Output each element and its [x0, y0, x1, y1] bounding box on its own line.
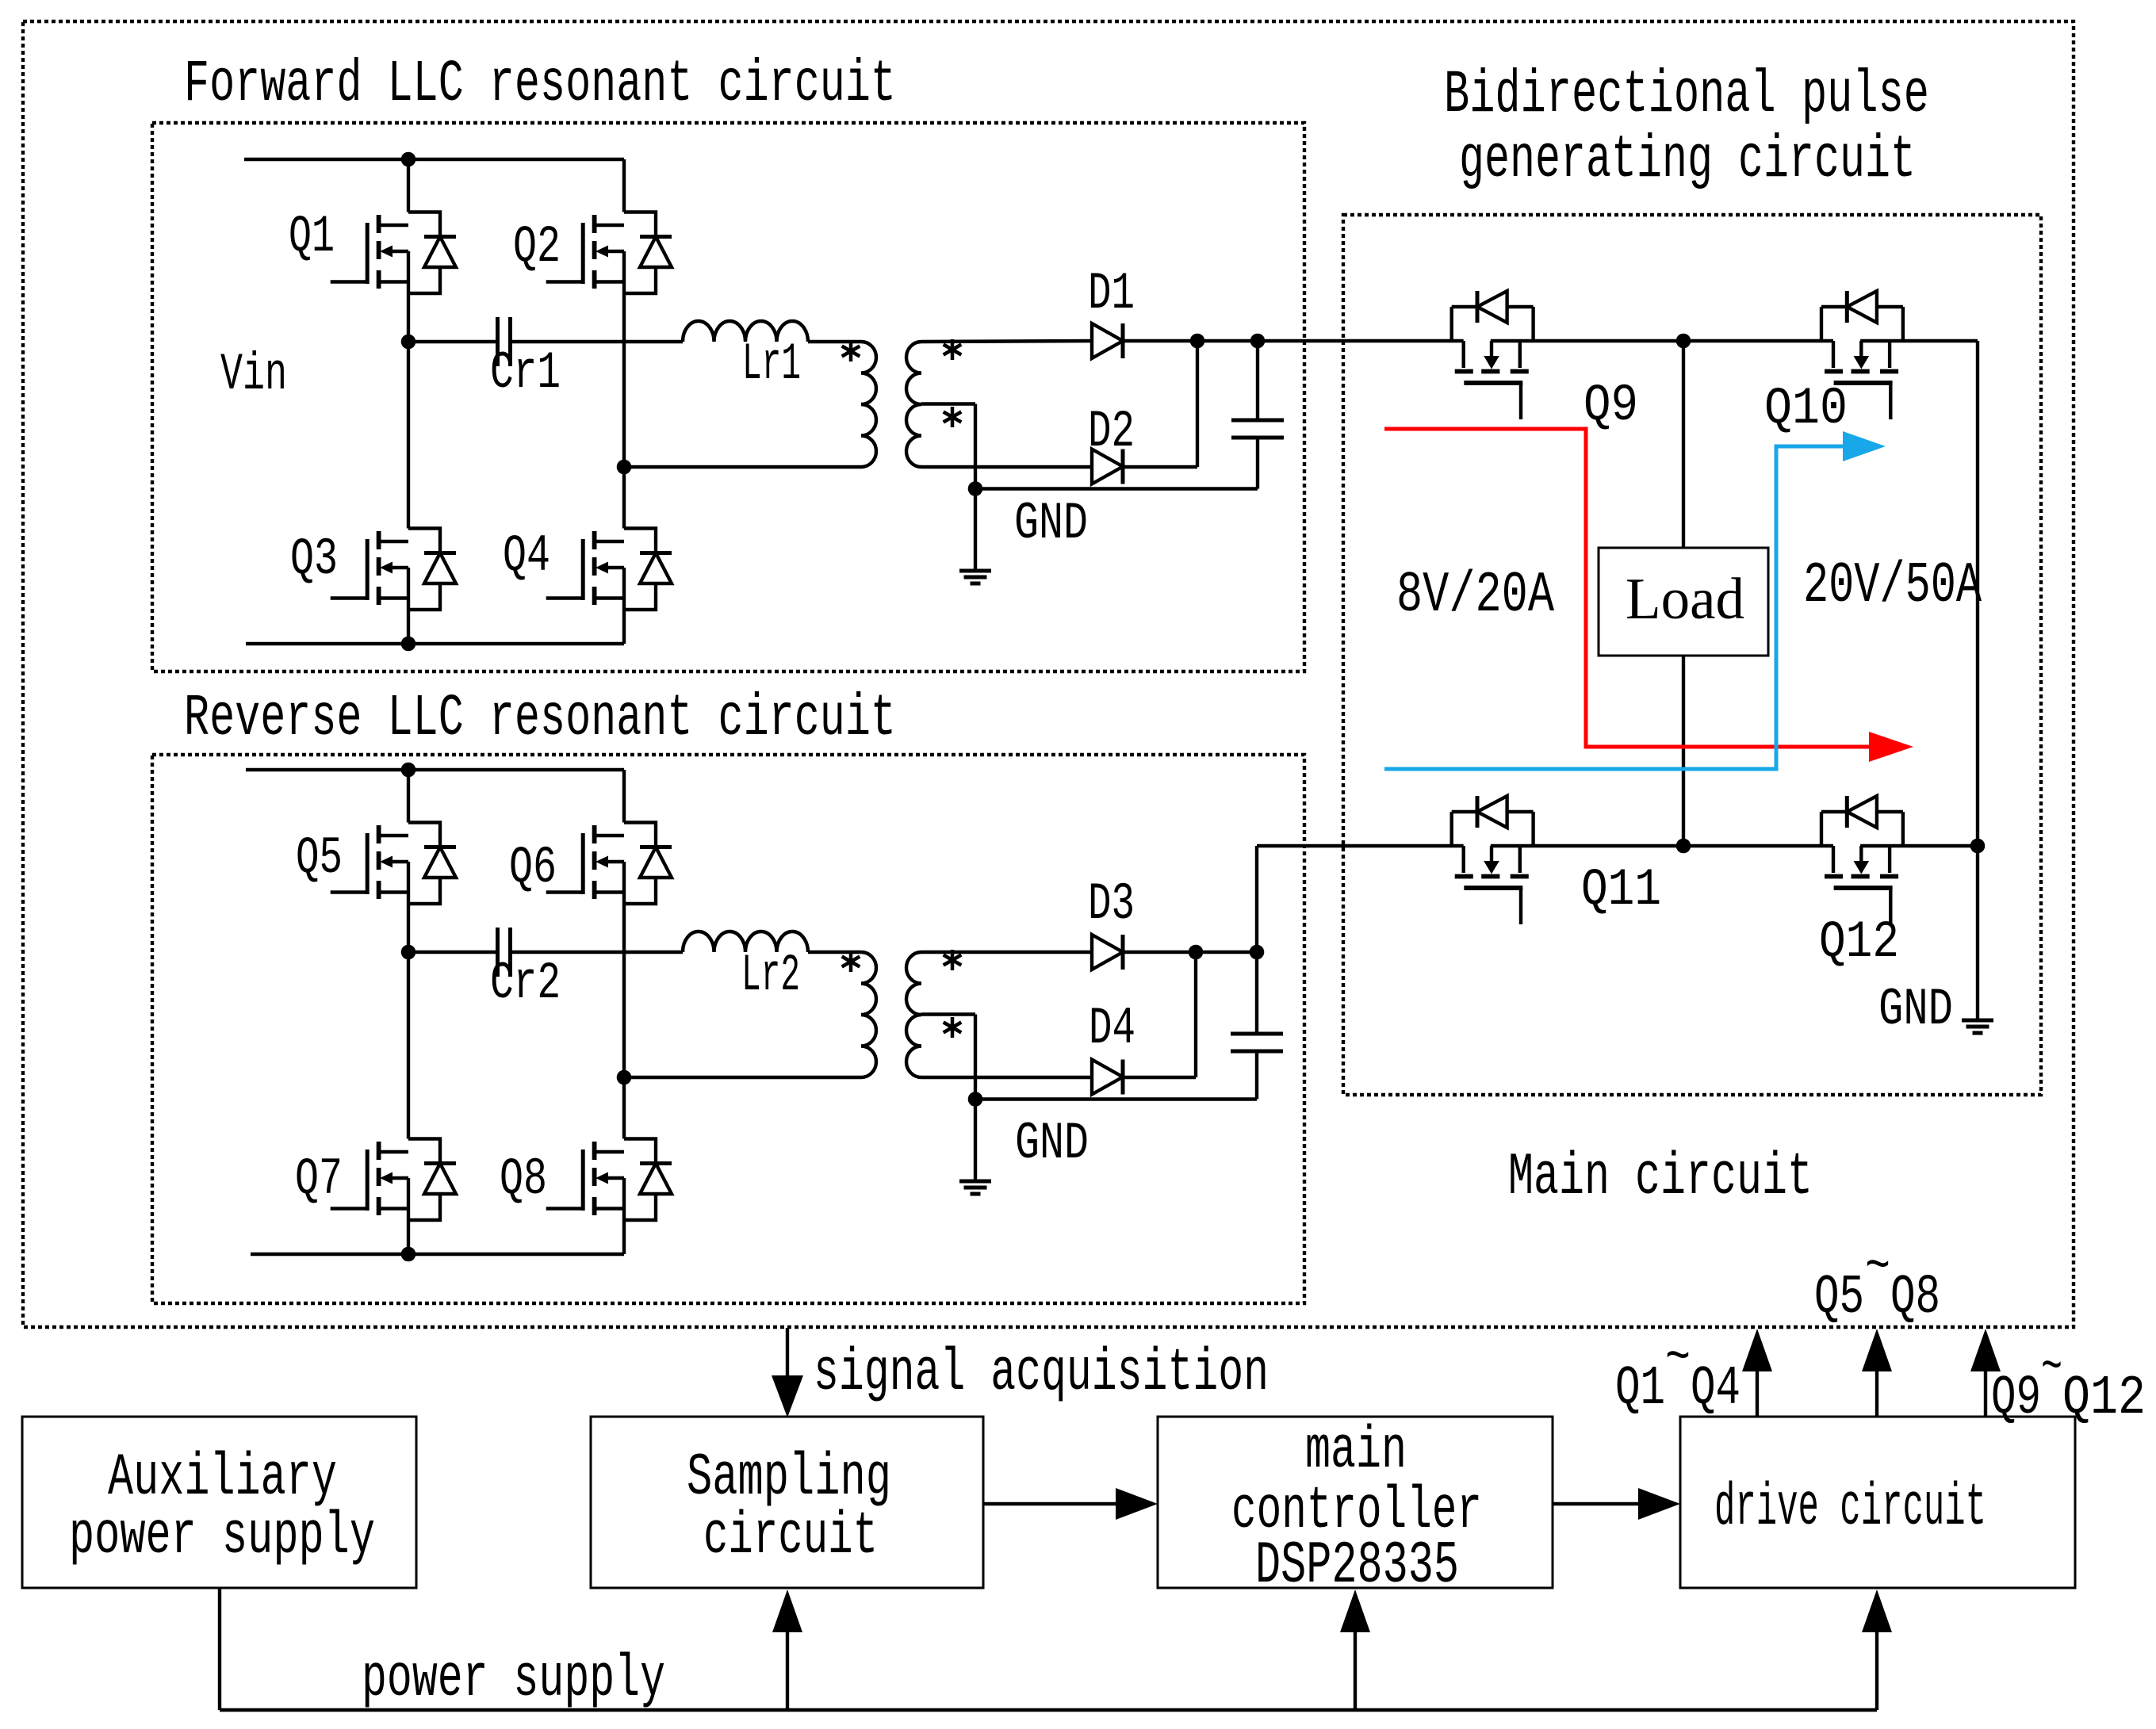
diode D2 [1092, 449, 1123, 484]
wire: D1 cathode to Q9 drain (forward output rail) [1123, 339, 1464, 342]
wire: leg1 drain to Q1 [407, 159, 410, 212]
wire: Q5 source to Q7 drain [407, 904, 410, 1139]
svg-text:20V/50A: 20V/50A [1803, 553, 1982, 618]
wire: Q2 source to Q4 drain [622, 293, 626, 529]
svg-text:Q9: Q9 [1991, 1368, 2041, 1430]
wire: D2 cathode riser to output rail [1123, 465, 1197, 469]
transformer T2 secondary winding [906, 952, 921, 1077]
arrow: Sampling to main controller [983, 1502, 1116, 1505]
node: reverse leg2 midpoint (primary return) [617, 1070, 632, 1085]
wire: Q8 source to bottom rail [622, 1220, 626, 1254]
wire: Cr2 to Lr2 [512, 951, 683, 954]
wire: Lr1 to transformer T1 primary [808, 340, 861, 343]
svg-text:~: ~ [1865, 1237, 1890, 1299]
wire: T1 secondary top to D1 [921, 341, 1092, 342]
wire: auxiliary power drop [218, 1588, 221, 1710]
wire: GND node to ground symbol [974, 489, 977, 570]
svg-text:Lr2: Lr2 [741, 946, 800, 1005]
wire: output cap top lead [1256, 341, 1259, 420]
svg-text:main: main [1305, 1417, 1407, 1485]
svg-text:~: ~ [2041, 1337, 2062, 1400]
wire: T2 secondary top to D3 [921, 951, 1092, 954]
wire: Q7 source to bottom rail [407, 1220, 410, 1254]
transistor Q11 [1452, 796, 1534, 924]
arrow: main controller to drive circuit [1553, 1502, 1638, 1505]
svg-text:Q3: Q3 [290, 530, 338, 589]
red power-flow path (forward) [1384, 429, 1869, 747]
svg-text:Q12: Q12 [2062, 1368, 2146, 1430]
box: drive circuit [1680, 1417, 2075, 1588]
wire: forward top rail Vin+ [244, 158, 624, 161]
wire: right rail down [1976, 341, 1979, 846]
wire: Q11 source to Q12 drain [1491, 844, 1833, 847]
svg-text:Vin: Vin [220, 345, 287, 404]
svg-text:Q7: Q7 [295, 1149, 343, 1209]
wire: mid rail to Cr2 [408, 951, 496, 954]
transistor Q5 [331, 823, 456, 905]
node: forward secondary GND node [968, 481, 983, 496]
node: right rail GND junction [1970, 839, 1986, 854]
transformer T1 primary winding [861, 342, 876, 467]
diode D1 [1092, 323, 1123, 358]
wire: reverse bottom rail [251, 1253, 624, 1256]
svg-text:Q8: Q8 [1890, 1267, 1940, 1329]
blue power-flow path (reverse) [1384, 446, 1843, 769]
wire: Q9 source to Q10 drain [1491, 339, 1833, 342]
capacitor Cr1 [496, 317, 500, 366]
transistor Q4 [546, 529, 672, 610]
wire: D3 cathode to junction [1123, 951, 1196, 954]
Bidirectional pulse generating circuit dashed box [1343, 215, 2041, 1095]
svg-text:signal acquisition: signal acquisition [814, 1340, 1269, 1407]
node: reverse leg1 midpoint (Cr2 net) [401, 945, 416, 960]
wire: T2 primary return to leg2 midpoint [624, 1076, 861, 1079]
box: Auxiliary power supply [22, 1417, 416, 1588]
wire: Q12 source to right rail [1860, 844, 1978, 847]
svg-text:Cr1: Cr1 [490, 343, 561, 403]
wire: Lr2 to transformer T2 primary [808, 951, 861, 954]
node: Load top junction [1676, 334, 1691, 349]
svg-text:Bidirectional pulse: Bidirectional pulse [1444, 61, 1929, 129]
wire: leg2 to Q6 [622, 770, 626, 823]
polarity dot T1 primary [842, 341, 860, 361]
wire: output cap bottom lead to GND rail [1256, 438, 1259, 489]
inductor Lr1 [683, 321, 808, 342]
svg-text:D2: D2 [1088, 402, 1135, 461]
outer dashed frame (Main circuit boundary) [23, 21, 2074, 1327]
svg-text:Q8: Q8 [500, 1149, 547, 1209]
svg-text:Main circuit: Main circuit [1508, 1144, 1813, 1211]
node: reverse top rail junction [401, 763, 416, 778]
polarity dot T1 secondary top [944, 339, 962, 360]
node: Load bottom junction [1676, 839, 1691, 854]
svg-text:power supply: power supply [362, 1646, 665, 1713]
inductor Lr2 [683, 931, 808, 952]
wire: D4 cathode riser [1123, 1076, 1196, 1079]
transistor Q10 [1821, 291, 1903, 419]
wire: Load bottom lead [1682, 656, 1685, 846]
ground symbol (right rail) [1962, 1020, 1993, 1033]
red power-flow arrowhead [1869, 732, 1913, 762]
svg-text:GND: GND [1014, 494, 1088, 553]
arrow: power to main controller [1354, 1632, 1357, 1710]
svg-text:circuit: circuit [703, 1503, 878, 1570]
arrow: power to Sampling circuit [786, 1632, 789, 1710]
capacitor Cr2 [496, 928, 500, 977]
svg-text:DSP28335: DSP28335 [1255, 1532, 1459, 1600]
svg-text:Reverse LLC resonant circuit: Reverse LLC resonant circuit [184, 686, 896, 752]
arrow: power to drive circuit [1875, 1632, 1878, 1710]
wire: Q1 source to mid rail / Q3 drain [407, 293, 410, 529]
polarity dot T1 secondary bottom [944, 407, 962, 427]
node: leg1 midpoint (Cr1 net) [401, 335, 416, 350]
wire: leg1 to Q5 [407, 770, 410, 823]
node: forward top rail junction [401, 152, 416, 167]
wire: Cr1 to Lr1 [512, 340, 683, 343]
wire: Q6 source to Q8 drain [622, 904, 626, 1139]
Reverse LLC resonant circuit dashed box [152, 755, 1304, 1303]
node: reverse output cap junction [1250, 945, 1265, 960]
wire: mid rail to Cr1 [408, 340, 496, 343]
svg-text:D3: D3 [1088, 874, 1135, 934]
wire: reverse top rail [246, 768, 624, 771]
wire: junction to reverse cap junction [1196, 951, 1257, 954]
wire: T2 center tap [921, 1012, 975, 1016]
transistor Q3 [331, 529, 456, 610]
Forward LLC resonant circuit dashed box [152, 123, 1304, 671]
wire: Load top lead [1682, 341, 1685, 548]
transistor Q12 [1821, 796, 1903, 924]
svg-text:Q4: Q4 [503, 526, 550, 586]
box: Load [1599, 548, 1768, 656]
transistor Q2 [546, 212, 672, 294]
node: leg2 midpoint (primary return) [617, 460, 632, 475]
wire: reverse output riser to Q11 rail [1255, 846, 1258, 952]
transistor Q6 [546, 823, 672, 905]
svg-text:Load: Load [1626, 567, 1744, 632]
transistor Q7 [331, 1139, 456, 1221]
node: output filter cap junction [1250, 334, 1266, 349]
node: reverse secondary GND node [968, 1092, 983, 1107]
transformer T1 secondary winding [906, 342, 921, 467]
transformer T2 primary winding [861, 952, 876, 1077]
svg-text:GND: GND [1878, 980, 1953, 1039]
wire: T1 secondary bottom to D2 [921, 465, 1092, 469]
transistor Q1 [331, 212, 456, 294]
wire: reverse cap bottom lead to GND rail [1255, 1051, 1258, 1100]
diode D3 [1092, 935, 1123, 970]
wire: Q3 source to bottom rail [407, 610, 410, 644]
svg-text:D1: D1 [1088, 264, 1135, 323]
wire: T1 center tap [921, 402, 975, 405]
wire: leg2 drain to Q2 [622, 159, 626, 212]
svg-text:Q9: Q9 [1583, 376, 1638, 435]
wire: GND node to ground symbol [974, 1100, 977, 1180]
arrow: drive to Q5-Q8 (up) [1875, 1371, 1878, 1417]
wire: Q4 source to bottom rail [622, 610, 626, 644]
svg-text:Q1: Q1 [289, 207, 335, 266]
transistor Q8 [546, 1139, 672, 1221]
node: D4 cathode junction [1189, 945, 1204, 960]
svg-text:~: ~ [1665, 1328, 1691, 1390]
polarity dot T2 primary [842, 951, 860, 972]
svg-text:drive circuit: drive circuit [1714, 1475, 1986, 1542]
box: Sampling circuit [591, 1417, 983, 1588]
wire: reverse cap top lead [1255, 952, 1258, 1034]
svg-text:GND: GND [1015, 1114, 1089, 1173]
transistor Q9 [1452, 291, 1534, 419]
svg-text:Cr2: Cr2 [490, 954, 561, 1013]
ground symbol (reverse secondary) [959, 1181, 991, 1194]
node: forward bottom rail junction [401, 637, 416, 652]
node: reverse bottom rail junction [401, 1247, 416, 1262]
diode D4 [1092, 1060, 1123, 1095]
ground symbol (forward secondary) [959, 571, 991, 583]
svg-text:Lr1: Lr1 [742, 335, 801, 394]
svg-text:Q5: Q5 [1814, 1267, 1864, 1329]
capacitor C2 output filter [1231, 1032, 1283, 1036]
svg-text:D4: D4 [1089, 999, 1135, 1058]
svg-text:power supply: power supply [69, 1503, 375, 1570]
svg-text:Q1: Q1 [1615, 1358, 1665, 1421]
arrow: drive to Q1-Q4 (up) [1756, 1371, 1759, 1417]
svg-text:Q10: Q10 [1764, 379, 1848, 438]
polarity dot T2 secondary top [944, 950, 962, 970]
box: main controller DSP28335 [1158, 1417, 1553, 1588]
svg-text:Q4: Q4 [1691, 1358, 1741, 1421]
svg-text:Q12: Q12 [1819, 912, 1899, 972]
wire: Q10 source to right rail corner [1860, 339, 1978, 342]
svg-text:Auxiliary: Auxiliary [108, 1444, 337, 1512]
svg-text:Q11: Q11 [1581, 860, 1661, 920]
svg-text:Q6: Q6 [509, 838, 557, 897]
arrow: signal acquisition (down from main circuit) [786, 1328, 789, 1375]
wire: power supply bus [220, 1708, 1877, 1712]
svg-text:Q2: Q2 [513, 217, 561, 277]
blue power-flow arrowhead [1843, 431, 1886, 461]
wire: forward bottom rail Vin- [246, 642, 624, 645]
wire: T1 primary return to leg2 midpoint [624, 465, 861, 469]
svg-text:generating circuit: generating circuit [1459, 126, 1916, 194]
svg-text:Sampling: Sampling [687, 1444, 891, 1512]
wire: right rail to ground [1976, 846, 1979, 1019]
capacitor C1 output filter [1231, 419, 1284, 423]
arrow: drive to Q9-Q12 (up) [1984, 1371, 1987, 1417]
svg-text:8V/20A: 8V/20A [1396, 563, 1555, 628]
polarity dot T2 secondary bottom [944, 1017, 962, 1038]
svg-text:Q5: Q5 [296, 828, 343, 888]
wire: T2 secondary bottom to D4 [921, 1076, 1092, 1079]
svg-text:Forward LLC resonant circuit: Forward LLC resonant circuit [184, 52, 896, 118]
node: D2 cathode junction [1190, 334, 1205, 349]
